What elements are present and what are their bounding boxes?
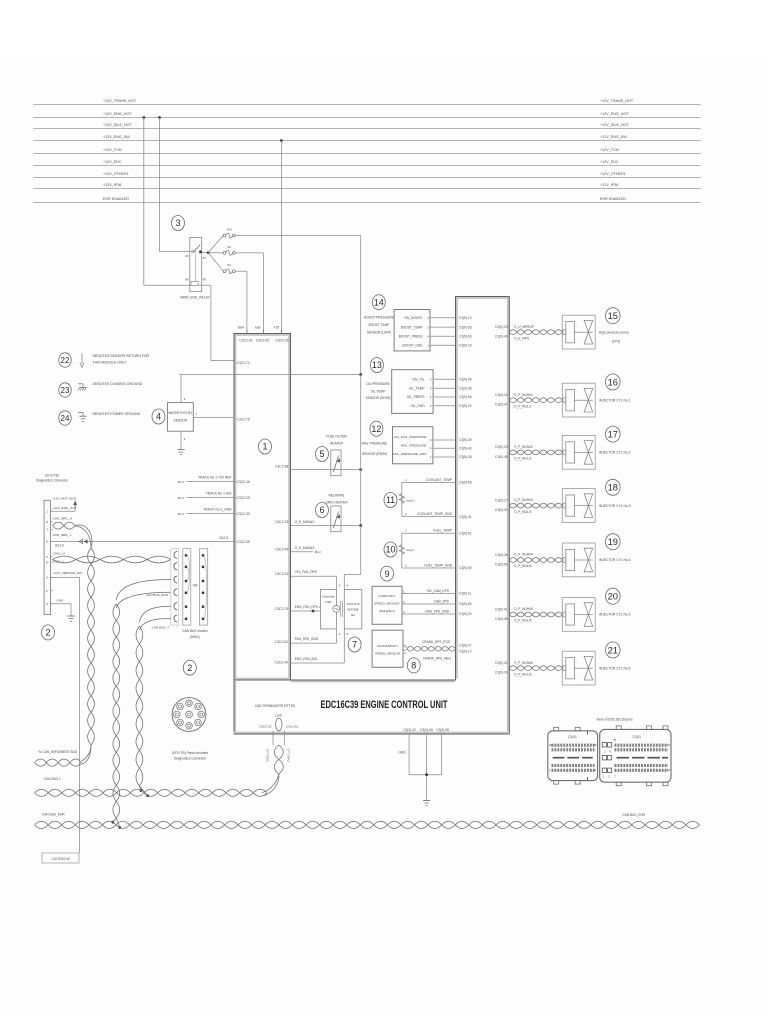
svg-text:O_P_INJL/5: O_P_INJL/5 xyxy=(514,619,532,623)
svg-text:GND: GND xyxy=(399,751,407,755)
wire oil sensor pin to ECU C3(9)-08 xyxy=(433,378,455,380)
note circle 24 power ground xyxy=(59,411,141,425)
svg-text:CAN BUS_T: CAN BUS_T xyxy=(152,626,169,630)
fuse F1 30A xyxy=(223,228,235,238)
ECU pin C3C2-40 ENG_FAN_SOL wire xyxy=(274,629,348,665)
svg-text:DSP: DSP xyxy=(326,600,332,604)
circle 20 xyxy=(606,588,621,604)
circle 7 xyxy=(348,637,361,652)
svg-text:EHR ENABLED: EHR ENABLED xyxy=(600,197,626,201)
svg-text:SENSOR (GDF#): SENSOR (GDF#) xyxy=(366,396,391,400)
ground wires from ECU bottom xyxy=(409,734,442,801)
power bus line EHR ENABLED xyxy=(33,197,701,203)
ECU pin C3C2-63 FAN_SPD_GND wire xyxy=(274,629,340,644)
svg-text:WATER IN FUEL: WATER IN FUEL xyxy=(168,411,192,415)
svg-text:11: 11 xyxy=(386,495,395,505)
svg-text:CAN BUS 1: CAN BUS 1 xyxy=(44,777,61,781)
svg-text:87: 87 xyxy=(203,256,207,260)
panel mounted diagnostics round connector xyxy=(172,698,206,732)
svg-text:C3C2-63: C3C2-63 xyxy=(274,640,287,644)
svg-text:12: 12 xyxy=(371,424,381,434)
svg-text:(MMC): (MMC) xyxy=(190,635,200,639)
power ground symbol below ECU xyxy=(423,801,430,806)
CAN_IMPLEMENT twisted bus xyxy=(35,759,82,766)
svg-text:+5V_FAN_DPS: +5V_FAN_DPS xyxy=(295,570,317,574)
svg-text:+12V_ENG_SW: +12V_ENG_SW xyxy=(103,135,130,139)
svg-text:BOOST TEMP: BOOST TEMP xyxy=(369,323,390,327)
power bus line +12V_ENG_HOT xyxy=(33,112,701,118)
svg-text:RAIL_PRESSURE_GND: RAIL_PRESSURE_GND xyxy=(392,452,427,456)
twisted pair to injector 16 xyxy=(509,393,562,409)
CAN monitor mating hooks box xyxy=(171,549,179,625)
CAN BUS monitor label xyxy=(182,629,209,639)
water in fuel sensor box xyxy=(168,403,194,432)
svg-text:19: 19 xyxy=(608,536,618,547)
water sensor pin 1 wire to ECU C3C2-76 xyxy=(193,417,234,419)
svg-text:120R: 120R xyxy=(275,713,283,717)
circle 21 xyxy=(606,642,621,658)
svg-text:FUEL FILTER: FUEL FILTER xyxy=(326,435,347,439)
svg-text:TRACK No.1 +5V REF: TRACK No.1 +5V REF xyxy=(198,476,231,480)
svg-text:9: 9 xyxy=(384,569,389,579)
svg-text:O_P_INJL/2: O_P_INJL/2 xyxy=(514,457,532,461)
svg-text:C3(5)-30: C3(5)-30 xyxy=(495,508,508,512)
svg-text:5: 5 xyxy=(319,449,324,459)
power bus line +12V_IP36 xyxy=(33,183,701,189)
svg-text:OR: OR xyxy=(193,583,198,587)
svg-text:+12V_IDLE_HOT: +12V_IDLE_HOT xyxy=(103,123,133,127)
svg-text:C3(5)-58: C3(5)-58 xyxy=(459,481,472,485)
injector circuit 15: ECU pins C3(9)-19/C3(5)-49 xyxy=(495,325,508,339)
svg-text:OIL_TEMP: OIL_TEMP xyxy=(409,386,425,390)
svg-text:+12V_TRANS_HOT: +12V_TRANS_HOT xyxy=(103,99,137,103)
svg-text:C: C xyxy=(46,555,48,559)
svg-text:CAMSHAFT: CAMSHAFT xyxy=(378,594,395,598)
power bus line +12V_IDLE_HOT xyxy=(33,123,701,129)
svg-text:bat-: bat- xyxy=(255,325,261,329)
wire TRACK No.1 +5V REF xyxy=(178,476,234,484)
svg-text:EHR ENABLED: EHR ENABLED xyxy=(103,197,129,201)
svg-text:+12V_TRANS_HOT: +12V_TRANS_HOT xyxy=(600,99,634,103)
injector circuit 19: ECU pins C3(5)-28/C3(5)-50 xyxy=(495,553,508,567)
power bus line +12V_TRANS_HOT xyxy=(33,99,701,105)
svg-text:C3C2-72: C3C2-72 xyxy=(237,361,250,365)
CAN BUS_EHR twisted bus xyxy=(35,821,700,828)
svg-text:INJECTOR CYL No.1: INJECTOR CYL No.1 xyxy=(599,398,631,402)
wire +12V_SERVICE_SW from diag pin G xyxy=(51,571,82,853)
svg-text:C3(9)-38: C3(9)-38 xyxy=(459,386,472,390)
twisted pair CAN_IMPL from diag pins H/J xyxy=(53,522,92,548)
fuse F3 5A xyxy=(223,263,235,273)
svg-text:C3C2-76: C3C2-76 xyxy=(237,418,250,422)
svg-text:7: 7 xyxy=(352,640,357,650)
circle 6 xyxy=(316,503,329,518)
svg-text:Diagnostics Connector: Diagnostics Connector xyxy=(36,478,69,482)
svg-text:(CP3): (CP3) xyxy=(612,340,621,344)
twisted pair CAN BUS_EHR from monitor xyxy=(116,580,171,609)
twisted pair to injector 19 xyxy=(509,553,562,569)
coolant temp sensor (thermistor) xyxy=(399,478,472,519)
svg-text:C3(2)-02: C3(2)-02 xyxy=(403,728,416,732)
svg-text:+12V_ENG_HOT: +12V_ENG_HOT xyxy=(600,112,629,116)
CAN BUS monitor connector block B xyxy=(200,549,208,625)
wire relay coil feed (down then right to relay pin 85) xyxy=(144,118,190,286)
svg-text:RAIL_PRESSURE: RAIL_PRESSURE xyxy=(401,443,427,447)
svg-text:INJECTOR CYL No.5: INJECTOR CYL No.5 xyxy=(599,613,631,617)
wire fuse F3 output down to ECU pin bat+ xyxy=(235,271,247,333)
wire diagonal to fuse F1 xyxy=(208,236,223,253)
injector connector/solenoid 20 xyxy=(562,598,595,632)
svg-text:VISCOUS: VISCOUS xyxy=(346,602,359,606)
svg-text:BLU: BLU xyxy=(178,512,184,516)
circle 13 xyxy=(370,358,383,373)
vertical twisted pair CAN BUS_T down xyxy=(136,626,148,796)
ECU pin bat- tick xyxy=(262,330,264,334)
svg-text:ENGINE: ENGINE xyxy=(347,608,358,612)
injector circuit 21: ECU pins C3(5)-02/C3(5)-39 xyxy=(495,661,508,675)
svg-text:E: E xyxy=(46,540,48,544)
svg-text:C3(5)-47: C3(5)-47 xyxy=(495,403,508,407)
svg-text:EDC16C39 ENGINE CONTROL UNIT: EDC16C39 ENGINE CONTROL UNIT xyxy=(321,699,448,711)
injector connector/solenoid 18 xyxy=(562,489,595,523)
svg-text:+5V_CAM_DPS: +5V_CAM_DPS xyxy=(426,589,449,593)
junction on +12V_ENG_HOT at x=159.5 xyxy=(158,116,161,119)
junction grid heater/main feed xyxy=(359,524,362,527)
drawing reference box C32-EM/2-W xyxy=(42,853,79,863)
svg-text:O_U_MPROP: O_U_MPROP xyxy=(514,325,534,329)
svg-text:O_E_MAIN#2: O_E_MAIN#2 xyxy=(295,546,315,550)
wire boost sensor pin to ECU C3(9)-53 xyxy=(430,326,456,328)
svg-text:FUEL_TEMP: FUEL_TEMP xyxy=(433,529,452,533)
svg-text:COOLANT_TEMP_GND: COOLANT_TEMP_GND xyxy=(417,512,453,516)
wire boost sensor pin to ECU C3(9)-13 xyxy=(430,317,456,319)
svg-text:MAIN_ENG_RELAY: MAIN_ENG_RELAY xyxy=(180,296,210,300)
circle 5 xyxy=(316,447,329,462)
svg-text:(Hall Effect): (Hall Effect) xyxy=(379,609,395,613)
svg-text:CAN1_HI: CAN1_HI xyxy=(266,749,270,762)
svg-text:10: 10 xyxy=(385,545,395,555)
svg-text:+12V_IP36: +12V_IP36 xyxy=(103,183,121,187)
injector circuit 17: ECU pins C3(5)-19/C3(5)-48 xyxy=(495,445,508,459)
circle 16 xyxy=(606,374,621,390)
svg-text:16: 16 xyxy=(608,376,618,387)
svg-text:C3(9)-22: C3(9)-22 xyxy=(459,404,472,408)
svg-text:B12-6: B12-6 xyxy=(55,544,64,548)
svg-text:CRANK_DPS_POS: CRANK_DPS_POS xyxy=(422,640,450,644)
svg-text:C3C2-33: C3C2-33 xyxy=(275,520,288,524)
svg-text:3: 3 xyxy=(175,218,180,228)
svg-text:C3(9)-39: C3(9)-39 xyxy=(459,438,472,442)
svg-text:C3C2-05: C3C2-05 xyxy=(256,339,269,343)
fan clutch DSP box xyxy=(320,589,339,629)
panel connector label xyxy=(172,751,208,761)
svg-text:C3C2-61: C3C2-61 xyxy=(286,725,299,729)
diagnostics connector header label xyxy=(36,473,69,482)
svg-text:DENOTES POWER GROUND: DENOTES POWER GROUND xyxy=(93,412,141,416)
svg-text:CRANKSHAFT: CRANKSHAFT xyxy=(377,644,398,648)
svg-text:SENSOR: SENSOR xyxy=(174,419,188,423)
wire sensor supply line y375 (to water-in-fuel sensor) xyxy=(179,374,361,376)
circle 4 xyxy=(152,409,165,424)
svg-text:O_P_INJL/3: O_P_INJL/3 xyxy=(514,510,532,514)
fuel filter heater element xyxy=(331,450,341,476)
svg-text:Clutch/fan: Clutch/fan xyxy=(322,595,335,599)
power bus line +12V_OTHER1 xyxy=(33,172,701,178)
svg-text:21: 21 xyxy=(608,644,618,655)
svg-text:C3C2-09: C3C2-09 xyxy=(237,496,250,500)
svg-text:O_P_INJL/1: O_P_INJL/1 xyxy=(514,404,532,408)
svg-text:INJECTOR CYL No.3: INJECTOR CYL No.3 xyxy=(599,504,631,508)
twisted pair CAN1 from diag pins C/D to CAN monitor xyxy=(53,556,171,563)
oil sensor name label xyxy=(366,382,391,400)
svg-text:O_P_INJH#6: O_P_INJH#6 xyxy=(514,661,533,665)
junction CAN BUS_EHR merge top wire xyxy=(111,821,114,824)
svg-text:C3(5)-02: C3(5)-02 xyxy=(495,661,508,665)
wire boost sensor pin to ECU C3(9)-23 xyxy=(430,344,456,346)
svg-text:C3(9)-59: C3(9)-59 xyxy=(459,566,472,570)
wire fuse F1 output to main vertical feed xyxy=(235,236,361,375)
wire fuse F2 output down to ECU pin bat- xyxy=(235,253,263,334)
svg-text:C3C2-01: C3C2-01 xyxy=(239,339,252,343)
wire camshaft sensor to ECU C3(9)-23 xyxy=(402,609,472,616)
boost sensor box U14 xyxy=(394,310,430,351)
svg-text:DENOTES CHASSIS GROUND: DENOTES CHASSIS GROUND xyxy=(93,382,143,386)
svg-text:O_P_INJH#4: O_P_INJH#4 xyxy=(514,553,533,557)
svg-text:C3(2)-0A: C3(2)-0A xyxy=(420,728,434,732)
svg-text:GRID HEATER: GRID HEATER xyxy=(325,501,348,505)
wire relay switch feed (down then right to relay pin 30) xyxy=(160,118,190,252)
vertical twisted pair CAN BUS_EHR down xyxy=(113,604,120,828)
svg-text:CAN BUS monitor: CAN BUS monitor xyxy=(182,629,209,633)
ECU right connector column C3(9)/C3(5) xyxy=(456,297,510,735)
svg-text:COOLANT_TEMP: COOLANT_TEMP xyxy=(426,478,452,482)
svg-text:BOOST_PRESS: BOOST_PRESS xyxy=(399,335,423,339)
wire boost sensor pin to ECU C3(9)-63 xyxy=(430,335,456,337)
wire rail sensor pin to ECU C3(9)-39 xyxy=(433,439,456,441)
svg-text:C3(5)-41: C3(5)-41 xyxy=(459,515,472,519)
twisted pair crankshaft sensor to ECU xyxy=(407,640,472,660)
wire rail sensor pin to ECU C3(5)-38 xyxy=(433,456,456,458)
svg-text:+12V_EDC: +12V_EDC xyxy=(103,160,122,164)
svg-text:C3(2): C3(2) xyxy=(633,735,641,739)
resistor 120R xyxy=(275,713,283,730)
svg-text:+12V_ENG_SW: +12V_ENG_SW xyxy=(600,135,627,139)
svg-text:+5V_RAIL_PRESSURE: +5V_RAIL_PRESSURE xyxy=(394,435,427,439)
svg-text:C3(9)-23: C3(9)-23 xyxy=(459,612,472,616)
svg-text:30A: 30A xyxy=(227,228,232,232)
circle 14 xyxy=(372,295,385,310)
injector circuit 20: ECU pins C3(5)-01/C3(5)-48 xyxy=(495,607,508,621)
svg-text:5A: 5A xyxy=(227,245,231,249)
note circle 23 chassis ground xyxy=(59,382,143,397)
injector 15 description xyxy=(599,330,629,343)
svg-text:ENG_FAN_DPS: ENG_FAN_DPS xyxy=(295,605,318,609)
circle 18 xyxy=(606,479,621,495)
svg-text:C3(9)-60: C3(9)-60 xyxy=(459,602,472,606)
junction CAN BUS_EHR merge bottom wire xyxy=(118,826,121,829)
svg-text:C3(5)-48: C3(5)-48 xyxy=(495,455,508,459)
svg-text:C3(5)-50: C3(5)-50 xyxy=(495,562,508,566)
wire +12V_ENG_HOT from diag pin 1 xyxy=(51,496,77,511)
wire ECU to grid heater (O_E_MAIN#1) xyxy=(291,525,361,527)
svg-text:C3C2-46: C3C2-46 xyxy=(237,480,250,484)
svg-text:TRACK No.1 SIG: TRACK No.1 SIG xyxy=(206,491,232,495)
viscous engine fan box xyxy=(344,589,362,629)
svg-text:To CAN_IMPLEMENT BUS: To CAN_IMPLEMENT BUS xyxy=(38,750,77,754)
svg-text:+12V_HOT_ENG: +12V_HOT_ENG xyxy=(52,496,77,500)
svg-text:2: 2 xyxy=(187,663,192,673)
svg-text:O_P_INJH#2: O_P_INJH#2 xyxy=(514,445,533,449)
svg-text:C3C2-26: C3C2-26 xyxy=(275,339,288,343)
svg-text:SPEED_SENSOR: SPEED_SENSOR xyxy=(375,651,401,655)
svg-text:BOOST_TEMP: BOOST_TEMP xyxy=(401,325,423,329)
svg-text:17: 17 xyxy=(608,429,618,440)
svg-text:C3C2-40: C3C2-40 xyxy=(274,661,287,665)
fuel temp sensor (thermistor) xyxy=(399,529,472,571)
svg-text:+12V_OTHER1: +12V_OTHER1 xyxy=(103,172,129,176)
svg-text:Diagnostics Connector: Diagnostics Connector xyxy=(174,757,207,761)
svg-text:CAN BUS_EHR: CAN BUS_EHR xyxy=(622,813,645,817)
wire diagonal to fuse F3 xyxy=(208,253,223,272)
svg-text:O_P_INJL/4: O_P_INJL/4 xyxy=(514,564,532,568)
svg-text:View of EDC16C39 pins: View of EDC16C39 pins xyxy=(596,717,633,721)
twisted pair CAN BUS_T from monitor xyxy=(139,606,170,630)
svg-text:CAM_SPD_GND: CAM_SPD_GND xyxy=(425,609,450,613)
svg-text:A: A xyxy=(46,602,48,606)
svg-text:24: 24 xyxy=(61,414,70,423)
fuse F2 5A xyxy=(223,245,235,255)
twisted pair to injector 15 xyxy=(509,325,562,341)
svg-text:OIL_GND: OIL_GND xyxy=(411,404,426,408)
svg-text:C3(5)-52: C3(5)-52 xyxy=(459,531,472,535)
junction on +12V_ENG_SW at x=281.4 xyxy=(280,139,283,142)
svg-text:8: 8 xyxy=(411,661,416,671)
svg-text:C3(9)-11: C3(9)-11 xyxy=(459,592,472,596)
svg-text:O_E_MPU: O_E_MPU xyxy=(514,336,530,340)
svg-text:BLU: BLU xyxy=(178,496,184,500)
svg-text:BOOST PRESSURE: BOOST PRESSURE xyxy=(364,316,394,320)
svg-text:DENOTES SENSOR RETURN FOR: DENOTES SENSOR RETURN FOR xyxy=(93,354,150,358)
wire oil sensor pin to ECU C3(9)-22 xyxy=(433,405,455,407)
svg-text:+12V_OTHER1: +12V_OTHER1 xyxy=(600,172,626,176)
svg-text:CAN BUS_EHR: CAN BUS_EHR xyxy=(146,593,169,597)
svg-text:+12V_TCM: +12V_TCM xyxy=(600,148,619,152)
svg-text:CAN BUS_EHR: CAN BUS_EHR xyxy=(42,813,65,817)
circle 2 (diagnostics) xyxy=(42,625,55,640)
svg-text:+12V_ENG_HOT: +12V_ENG_HOT xyxy=(53,506,77,510)
svg-text:GND: GND xyxy=(56,598,64,602)
diagnostics connector body xyxy=(44,500,52,614)
svg-text:+12V_EDC: +12V_EDC xyxy=(600,160,619,164)
circle 8 xyxy=(407,658,420,673)
camshaft speed sensor box U9 xyxy=(372,586,402,624)
junction CAN BUS_T merge bottom wire xyxy=(146,794,149,797)
svg-text:CAN_IMPL_L: CAN_IMPL_L xyxy=(53,533,72,537)
svg-text:High pressure pump: High pressure pump xyxy=(599,330,629,334)
svg-text:18: 18 xyxy=(608,482,618,493)
wire oil sensor pin to ECU C3(9)-56 xyxy=(433,396,455,398)
ECU pin C3C2-75 ENG_FAN_DPS wire xyxy=(275,605,321,611)
svg-text:INJECTOR CYL No.6: INJECTOR CYL No.6 xyxy=(599,666,631,670)
twisted pair to injector 17 xyxy=(509,445,562,461)
wire oil sensor pin to ECU C3(9)-38 xyxy=(433,387,455,389)
circle 12 xyxy=(370,421,383,436)
svg-text:13: 13 xyxy=(372,360,382,370)
svg-text:THIS MODULE ONLY: THIS MODULE ONLY xyxy=(93,361,128,365)
junction on ENG_FAN_DPS wire xyxy=(312,610,315,613)
main feed vertical continues xyxy=(360,375,362,526)
vertical twisted pair CAN_IMPL down page xyxy=(82,548,95,764)
injector connector/solenoid 15 xyxy=(562,315,595,349)
rail sensor name label xyxy=(362,442,387,457)
water sensor pin 3 wire up to feed line xyxy=(180,375,182,403)
ECU pin +15 tick xyxy=(280,330,282,334)
power bus line +12V_EDC xyxy=(33,160,701,166)
injector circuit 18: ECU pins C3(5)-17/C3(5)-30 xyxy=(495,498,508,512)
power bus line +12V_ENG_SW xyxy=(33,135,701,141)
svg-text:4: 4 xyxy=(156,412,161,422)
svg-text:C3C2-62: C3C2-62 xyxy=(259,725,272,729)
junction ground node xyxy=(425,773,428,776)
mechanical coupling dashes xyxy=(340,601,342,617)
svg-text:C3(5)-38: C3(5)-38 xyxy=(459,455,472,459)
power ground under diag connector xyxy=(67,616,74,621)
injector circuit 16: ECU pins C3(5)-18/C3(5)-47 xyxy=(495,393,508,407)
twisted pair to injector 20 xyxy=(509,607,562,623)
svg-text:ENG_FAN_SOL: ENG_FAN_SOL xyxy=(295,657,318,661)
wire GND from diag pin A xyxy=(51,598,72,616)
svg-text:CAN_IMPL_H: CAN_IMPL_H xyxy=(53,516,72,520)
crankshaft speed sensor box U8 xyxy=(372,630,406,667)
CAN1 wires from terminator down xyxy=(266,731,291,763)
CAN BUS 1 twisted bus xyxy=(35,789,267,796)
svg-text:23: 23 xyxy=(61,386,70,395)
svg-text:D: D xyxy=(46,560,48,564)
svg-text:+12V_IDLE_HOT: +12V_IDLE_HOT xyxy=(600,123,630,127)
svg-text:C3(5)-28: C3(5)-28 xyxy=(495,553,508,557)
rail sensor box U12 xyxy=(392,427,433,464)
CAN BUS monitor connector block A xyxy=(183,549,191,625)
circle 15 xyxy=(606,308,621,324)
svg-text:TRACK No.1_GND: TRACK No.1_GND xyxy=(203,508,232,512)
ECU bottom band outline xyxy=(234,680,510,734)
svg-text:C3(5)-43: C3(5)-43 xyxy=(459,446,472,450)
svg-text:C3C2-68: C3C2-68 xyxy=(275,465,288,469)
svg-text:C3(5)-01: C3(5)-01 xyxy=(495,607,508,611)
junction at main feed x360.7/y374.6 xyxy=(359,373,362,376)
injector connector/solenoid 17 xyxy=(562,435,595,469)
svg-text:+15: +15 xyxy=(273,325,279,329)
svg-text:CAN TERMINATOR FITTED: CAN TERMINATOR FITTED xyxy=(255,704,296,708)
svg-text:O_P_INJL/6: O_P_INJL/6 xyxy=(514,672,532,676)
svg-text:C3C2-49: C3C2-49 xyxy=(275,547,288,551)
svg-text:(ECV-TB): (ECV-TB) xyxy=(45,473,59,477)
main feed to fan pin 4 xyxy=(344,526,360,590)
svg-text:O_E_MAIN#1: O_E_MAIN#1 xyxy=(295,520,315,524)
svg-text:FAN_SPD_GND: FAN_SPD_GND xyxy=(295,637,319,641)
svg-text:+12V_SERVICE_SW: +12V_SERVICE_SW xyxy=(53,571,82,575)
injector connector/solenoid 16 xyxy=(562,383,595,417)
svg-text:BLU: BLU xyxy=(178,480,184,484)
svg-text:C3C2-30: C3C2-30 xyxy=(237,512,250,516)
wire relay 87 output to fuse fan-out node xyxy=(202,252,209,254)
svg-text:C3(2)-08: C3(2)-08 xyxy=(436,728,449,732)
svg-text:C3(9)-08: C3(9)-08 xyxy=(459,378,472,382)
crank sensor stub wires xyxy=(403,645,407,647)
svg-text:HEATER: HEATER xyxy=(330,442,344,446)
ECU connector detail C3(2) xyxy=(600,726,671,786)
svg-text:C3(5)-49: C3(5)-49 xyxy=(495,335,508,339)
